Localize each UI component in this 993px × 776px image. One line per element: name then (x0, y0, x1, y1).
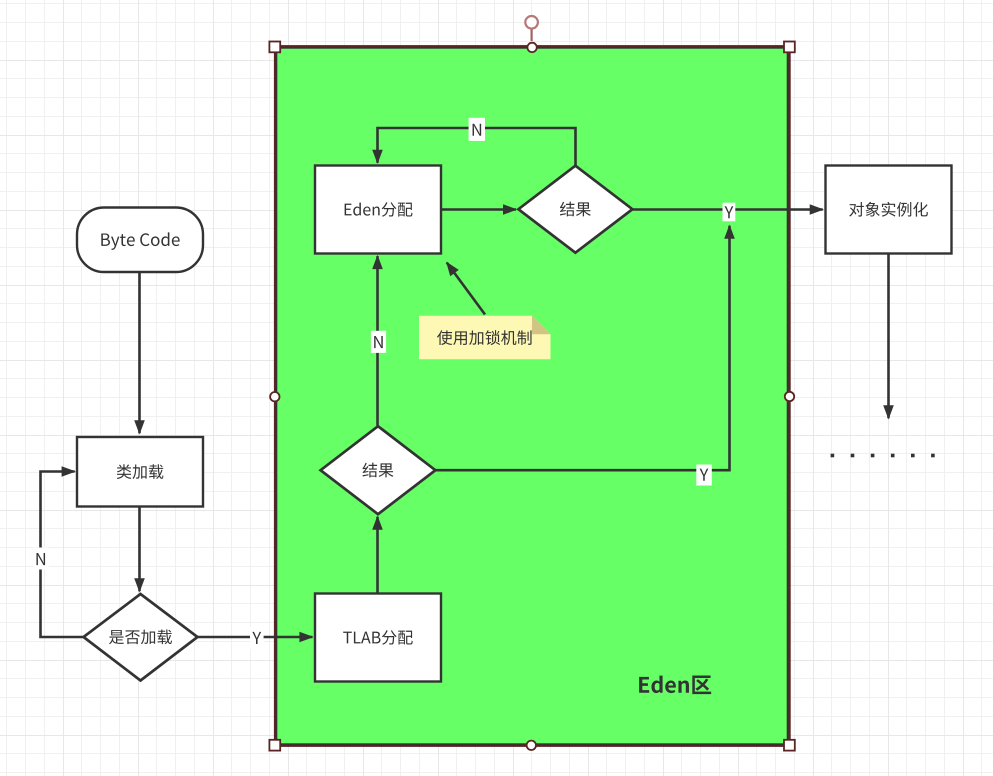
selection midpoint handle left (270, 392, 279, 401)
edge Byte Code to 类加载 (138, 273, 141, 434)
selection midpoint handle top (527, 43, 536, 52)
label Y top right (723, 203, 736, 222)
selection corner handle top-left (269, 42, 280, 53)
edge 对象实例化 down to dots (887, 254, 890, 419)
edge 是否加载 N-loop back to 类加载 (41, 472, 85, 638)
edge TLAB分配 up to 结果 bottom diamond (376, 517, 379, 593)
selection midpoint handle right (785, 392, 794, 401)
selection corner handle top-right (784, 42, 795, 53)
label N on left loop (33, 548, 48, 570)
node TLAB分配 rectangle (315, 594, 441, 682)
node 结果 bottom diamond (321, 426, 436, 514)
label Y near TLAB分配 (250, 627, 264, 649)
node 是否加载 diamond (84, 594, 198, 681)
note 使用加锁机制 sticky (419, 316, 551, 359)
edge 类加载 to 是否加载 (138, 507, 141, 591)
node 类加载 rectangle (77, 437, 203, 507)
selection corner handle bottom-right (784, 740, 795, 751)
edge Eden分配 to 结果 top diamond (442, 208, 517, 211)
edge 结果 bottom Y right and up to junction (436, 226, 730, 470)
edge 结果 bottom N up to Eden分配 (376, 256, 379, 425)
selection rotation handle (525, 16, 538, 41)
edge note 使用加锁机制 arrow to Eden分配 corner (447, 263, 485, 315)
green container rectangle Eden区 (276, 48, 788, 745)
label Y bottom right (696, 465, 712, 486)
label N on top loop (469, 118, 485, 141)
node Byte Code stadium (77, 208, 203, 273)
node Eden分配 rectangle (315, 166, 441, 254)
dots ellipsis after 对象实例化 (831, 454, 935, 458)
edge 结果 top N-loop back to Eden分配 (378, 128, 576, 165)
edge 是否加载 Y to TLAB分配 (198, 636, 313, 639)
node 对象实例化 rectangle (826, 166, 952, 254)
text Eden区 bold (639, 675, 711, 694)
node 结果 top diamond (518, 166, 632, 253)
selection outline of green rectangle (275, 46, 790, 746)
edge 结果 top Y to 对象实例化 (632, 208, 823, 211)
selection corner handle bottom-left (269, 740, 280, 751)
label N below Eden分配 (371, 331, 386, 353)
selection midpoint handle bottom (527, 741, 536, 750)
